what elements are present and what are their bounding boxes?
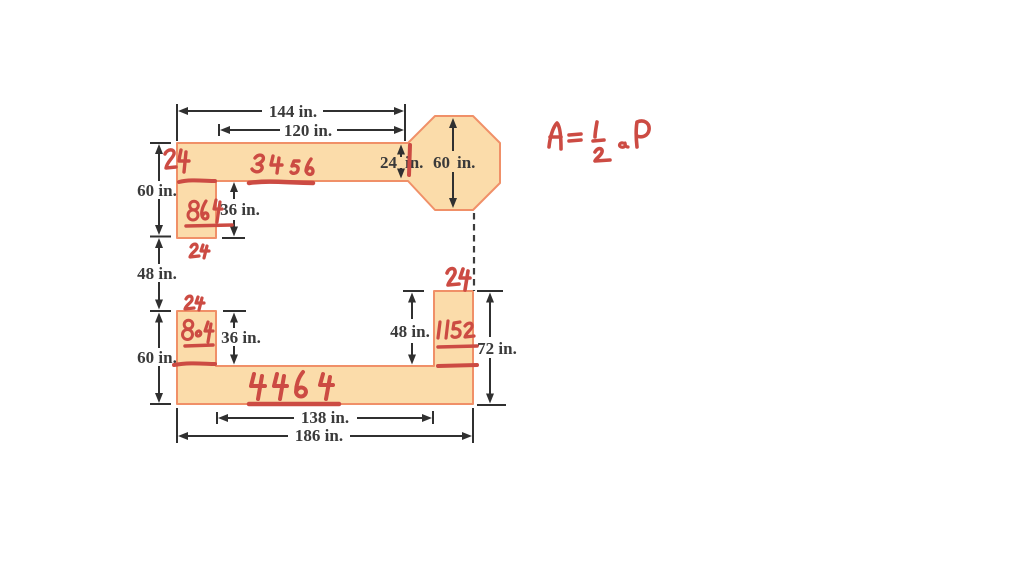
arrowheads dim 144 [178, 107, 188, 115]
red underline under 1152 [438, 346, 477, 347]
handwritten 804 [184, 320, 193, 329]
left chain: 60in lower segment line [158, 321, 160, 348]
svg-text:36 in.: 36 in. [221, 328, 261, 347]
dim 36 top: bottom cap [222, 237, 245, 239]
svg-text:138 in.: 138 in. [301, 408, 349, 427]
dim 72: bottom cap [477, 404, 506, 406]
svg-text:186 in.: 186 in. [295, 426, 343, 445]
dim 144: line segments [182, 110, 262, 112]
red stroke at lower-left junction [174, 363, 215, 365]
handwritten formula A = 1/2 aP [549, 123, 561, 149]
handwritten 24 top-left [165, 150, 176, 168]
svg-text:144 in.: 144 in. [269, 102, 317, 121]
svg-text:36 in.: 36 in. [220, 200, 260, 219]
arrowheads dim 120 [220, 126, 230, 134]
handwritten 24 above lower-left rect [185, 296, 194, 309]
left chain: 48in segment line [158, 246, 160, 264]
dim 48 right: top cap [403, 290, 424, 292]
dim 36 bottom: top cap [223, 310, 246, 312]
svg-text:48 in.: 48 in. [137, 264, 177, 283]
arrowheads dim 48 right [408, 293, 416, 303]
left chain: top cap [150, 142, 171, 144]
svg-text:60 in.: 60 in. [137, 181, 177, 200]
svg-text:72 in.: 72 in. [477, 339, 517, 358]
red stroke at bar-bottom left [179, 180, 215, 182]
bottom figure (U shape) [177, 291, 473, 404]
red stroke at lower-right junction [438, 365, 477, 366]
dim 24 junction: arrow tails [400, 152, 402, 157]
handwritten 24 above lower-right rect [447, 269, 459, 286]
svg-text:60 in.: 60 in. [137, 348, 177, 367]
handwritten 24 below top-left rect [190, 244, 199, 257]
arrowheads dim 186 [178, 432, 188, 440]
arrowheads dim 36 bottom [230, 313, 238, 323]
red tick at octagon junction [409, 145, 410, 175]
arrowheads dim 36 top [230, 182, 238, 192]
left chain: tick at 311 [150, 310, 171, 312]
svg-text:60: 60 [433, 153, 450, 172]
svg-text:in.: in. [457, 153, 475, 172]
dim 120: line segments [223, 129, 280, 131]
handwritten 1152 [438, 322, 440, 338]
red underline under 864 [186, 225, 232, 226]
dim 186: extension lines [176, 408, 178, 443]
arrowheads dim 72 [486, 293, 494, 303]
left chain: bottom cap [150, 403, 171, 405]
dim 138: line segments [222, 417, 294, 419]
dim 36 bottom: lines [233, 320, 235, 328]
dim 120: left tick [218, 124, 220, 136]
dim 36 top: lines [233, 190, 235, 199]
arrowheads dim 138 [218, 414, 228, 422]
dim 138: left tick [216, 412, 218, 424]
arrowheads dim 24 junction [397, 145, 405, 155]
dim 138: right tick [432, 411, 434, 424]
dim 72: top cap [477, 290, 503, 292]
red underline under 804 [185, 345, 213, 346]
svg-text:24: 24 [380, 153, 398, 172]
dim 72: lines [489, 301, 491, 337]
red underline under 3456 [249, 182, 313, 183]
dim 186: line segments [182, 435, 288, 437]
handwritten 864 [190, 201, 199, 210]
handwritten 3456 in top bar [252, 155, 263, 172]
svg-text:120 in.: 120 in. [284, 121, 332, 140]
svg-text:48 in.: 48 in. [390, 322, 430, 341]
dim 60 octagon: lines [452, 126, 454, 151]
dim 144: extension lines [176, 104, 178, 141]
left chain: tick at 236 [150, 236, 171, 238]
top figure (bar + left leg + octagon) [177, 116, 500, 238]
handwritten 4464 [251, 374, 265, 399]
arrowheads dim 60 octagon [449, 118, 457, 128]
arrowheads left chain [155, 144, 163, 154]
dashed line from octagon to lower-right rect [473, 213, 475, 291]
dim 48 right: lines [411, 301, 413, 319]
left chain: 60in segment line [158, 152, 160, 181]
red underline under 4464 [249, 402, 339, 407]
